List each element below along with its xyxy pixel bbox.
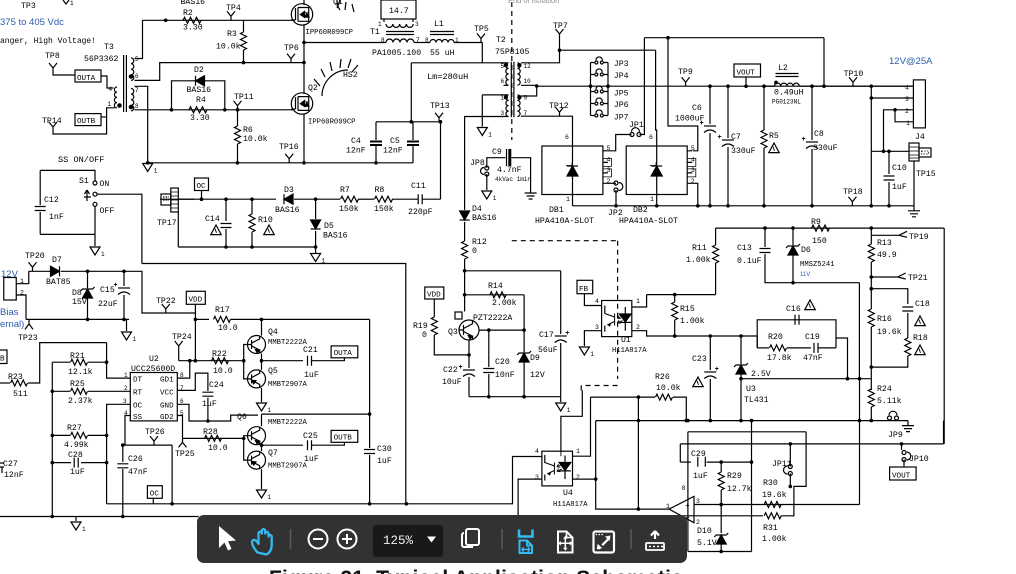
capacitor C23 [709, 336, 711, 370]
svg-text:Q3: Q3 [448, 328, 458, 337]
wire VDD input rail y271.3 [29, 270, 50, 272]
svg-text:5.1V: 5.1V [697, 539, 717, 548]
svg-text:R7: R7 [340, 186, 350, 195]
svg-text:C16: C16 [786, 305, 801, 314]
svg-text:ernal): ernal) [0, 319, 24, 330]
svg-text:TP19: TP19 [909, 233, 929, 242]
resistor R22 body [212, 358, 229, 364]
transformer T2 core [511, 62, 514, 118]
svg-text:R10: R10 [258, 216, 273, 225]
resistor R26 body [656, 394, 673, 400]
wire Q1 source to T1 pin8 [304, 42, 386, 44]
jumper JP8 circles [485, 166, 489, 170]
toolbar separator 2 [501, 529, 503, 549]
toolbar icon fit-width (blue) [519, 530, 533, 537]
svg-text:TP15: TP15 [916, 170, 936, 179]
svg-text:PA1005.100: PA1005.100 [372, 49, 421, 58]
svg-text:Q4: Q4 [268, 328, 278, 337]
wire R17 rail to C30 riser [369, 319, 371, 448]
transformer T3 primary winding 4-1 [114, 87, 117, 108]
wire TP5 riser down to T2 pin5 [481, 43, 483, 63]
svg-text:U4: U4 [563, 489, 573, 498]
wire DB2 pin6 riser [656, 50, 657, 146]
svg-text:1: 1 [378, 21, 382, 28]
wire JP8 bottom to ground [486, 174, 488, 190]
wire R12 node down to R14/Q3 [464, 271, 466, 295]
wire SS switch net vertical x405.8 [142, 264, 406, 504]
svg-text:SS ON/OFF: SS ON/OFF [58, 155, 104, 165]
wire Q3 base [479, 329, 524, 331]
svg-text:D9: D9 [530, 354, 540, 363]
resistor R29 body [718, 472, 724, 490]
capacitor C14 plates [221, 224, 232, 228]
svg-text:GD2: GD2 [160, 414, 174, 422]
wire Q2 source to ground bus [303, 114, 305, 163]
svg-text:JP6: JP6 [614, 101, 629, 110]
svg-text:47nF: 47nF [128, 468, 148, 477]
label OUTA (boxed) right [331, 346, 358, 358]
wire Q1 drain to top [303, 0, 305, 5]
zener 2.5V reference [740, 336, 742, 364]
svg-text:1: 1 [636, 298, 640, 305]
wire L2 leads [764, 85, 775, 87]
inductor L2 winding [775, 83, 800, 86]
ground net1 bias return [126, 319, 128, 331]
svg-text:B: B [0, 356, 5, 364]
svg-text:TP23: TP23 [18, 334, 38, 343]
wire fb box bottom y443.9 [680, 443, 943, 445]
svg-text:R14: R14 [488, 282, 503, 291]
wire Q6 emitter / Q7 emitter node [261, 445, 263, 451]
boxed label B at left edge [0, 350, 7, 364]
resistor R4 body [189, 107, 207, 113]
svg-text:2: 2 [636, 324, 640, 331]
toolbar separator 3 [630, 529, 632, 549]
svg-text:C25: C25 [303, 432, 318, 441]
svg-text:R28: R28 [203, 428, 218, 437]
wire R31 right riser to JP11 [781, 432, 806, 516]
transformer T3 secondary winding 7-8 [131, 89, 134, 111]
wire JP10 to VOUT label [903, 460, 905, 468]
svg-text:1: 1 [566, 196, 570, 203]
svg-text:TP12: TP12 [549, 102, 569, 111]
wire TP8 to OUTA [53, 72, 75, 75]
svg-text:3: 3 [595, 324, 599, 331]
svg-text:R26: R26 [655, 373, 670, 382]
svg-text:4: 4 [607, 157, 611, 164]
heatsink HS1 fins (partial) [337, 0, 354, 12]
jumper block JP3-JP7 box [591, 63, 609, 116]
svg-text:VOUT: VOUT [892, 473, 911, 481]
wire C11 to TP13 riser [423, 198, 441, 200]
ground net1 at T3 pin7 [143, 164, 153, 172]
ground net1 main rail [75, 517, 77, 522]
ground net1 below Q7 [257, 490, 267, 498]
rectifier DB1 internal diode [572, 146, 574, 165]
svg-text:8: 8 [135, 103, 139, 110]
IC U2 box [130, 373, 177, 421]
resistor R31 body [764, 513, 781, 519]
svg-text:1uF: 1uF [304, 371, 319, 380]
label OUTB (boxed) right [331, 430, 358, 442]
svg-text:10.0: 10.0 [213, 367, 233, 376]
svg-text:10.0: 10.0 [218, 324, 238, 333]
svg-text:4: 4 [691, 157, 695, 164]
resistor R23 body [11, 380, 28, 386]
svg-text:IPP60R099CP: IPP60R099CP [306, 29, 353, 37]
wire OC row y199.2 [160, 198, 276, 200]
svg-text:TP3: TP3 [21, 2, 36, 11]
wire T2 pin3 lead to D4 column [465, 117, 508, 200]
svg-text:+: + [565, 330, 569, 338]
primary ground bus y162.8 [148, 162, 413, 164]
resistor R12 [462, 241, 468, 259]
svg-text:S1: S1 [79, 177, 89, 186]
svg-text:1: 1 [82, 526, 86, 533]
svg-text:R18: R18 [913, 334, 928, 343]
svg-text:MMBT2907A: MMBT2907A [268, 463, 308, 471]
warning mark C16 [805, 300, 815, 310]
resistor R5 body [761, 130, 767, 148]
svg-text:C17: C17 [539, 331, 554, 340]
svg-text:10nF: 10nF [495, 371, 515, 380]
wire U4 collector top routing [561, 390, 582, 451]
svg-text:6: 6 [501, 78, 505, 85]
wire T3 pin8 to R4 rail [135, 109, 294, 111]
svg-text:BAT85: BAT85 [46, 278, 71, 287]
svg-text:HPA410A-SLOT: HPA410A-SLOT [535, 217, 594, 226]
wire T2 pin9 join [521, 85, 537, 96]
wire SS node rail [123, 444, 172, 446]
svg-text:L2: L2 [778, 64, 788, 73]
ground net1 T2 primary return [477, 128, 487, 136]
svg-text:3: 3 [535, 474, 539, 481]
wire sense rail y228.1 [716, 227, 945, 229]
transformer T3 core [124, 55, 127, 112]
wire TP7 to T2 pin12 [521, 50, 560, 63]
wire bias pin2 [16, 295, 26, 319]
svg-text:TP24: TP24 [172, 333, 192, 342]
wire GND pin routing [177, 404, 258, 421]
svg-text:12nF: 12nF [383, 147, 403, 156]
capacitor C23 plates [704, 371, 716, 373]
label OUTA (boxed) [75, 70, 101, 82]
resistor R21 body [71, 359, 88, 365]
Q3 ground rail [469, 396, 561, 398]
resistor R30 body [764, 502, 781, 508]
wire opamp -input y515.8 [518, 515, 763, 517]
resistor R20 and capacitor C19 bottom branch [757, 347, 769, 349]
warning mark R5 [769, 143, 779, 153]
compensation loop R20 C19 C16 [757, 320, 836, 348]
svg-text:4.99k: 4.99k [64, 440, 89, 450]
svg-text:MMSZ5241: MMSZ5241 [800, 261, 835, 269]
resistor R24 body [868, 389, 874, 407]
svg-text:BAS16: BAS16 [187, 86, 212, 95]
svg-text:R15: R15 [680, 305, 695, 314]
wire DB1 pin5 to JP1 [608, 135, 632, 151]
warning mark C14 [211, 225, 221, 235]
svg-text:56P3362: 56P3362 [84, 55, 118, 64]
node V1 (top-left partial ground) [63, 0, 69, 4]
label FB (boxed) [577, 280, 593, 293]
zener D6 body [788, 246, 798, 255]
wire T3 pin6 riser to TP6 rail [135, 63, 305, 81]
jumper JP1 circles [630, 133, 634, 137]
svg-text:1uF: 1uF [304, 455, 319, 464]
svg-text:6: 6 [135, 73, 139, 80]
transformer T3 secondary winding 5-6 [131, 58, 134, 80]
figure caption [0, 567, 952, 574]
svg-text:C19: C19 [805, 333, 820, 342]
capacitor C10 plates [884, 176, 895, 180]
wire C11 riser (TP13 node down to C11) [440, 122, 442, 199]
capacitor C22 plates [463, 369, 475, 371]
svg-text:19.6k: 19.6k [877, 327, 902, 337]
svg-text:U2: U2 [149, 355, 159, 364]
svg-text:BAS16: BAS16 [472, 214, 497, 223]
svg-text:C22: C22 [443, 366, 458, 375]
svg-text:J4: J4 [915, 133, 925, 142]
svg-text:1uF: 1uF [892, 183, 907, 192]
svg-text:R31: R31 [763, 524, 778, 533]
warning mark C18 [915, 316, 925, 326]
svg-text:C11: C11 [411, 182, 426, 191]
svg-text:DB2: DB2 [633, 206, 648, 215]
svg-text:1: 1 [154, 168, 158, 175]
svg-text:10.0k: 10.0k [216, 42, 241, 52]
jumper JP10 circles [902, 451, 906, 455]
zener D9 body [519, 353, 529, 362]
svg-text:C29: C29 [691, 450, 706, 459]
wire T2 pin6 stub [504, 84, 509, 86]
test point TP21 tick [898, 273, 906, 279]
wire ref rail to R30 riser [859, 379, 861, 505]
svg-text:U3: U3 [746, 385, 756, 394]
jumper JP11 circles [788, 465, 792, 469]
wire Q4 collector [261, 319, 263, 335]
svg-text:Lm=280uH: Lm=280uH [427, 72, 468, 82]
svg-text:14.7: 14.7 [389, 7, 409, 16]
wire J4 pin1 bracket [895, 110, 913, 122]
svg-text:19.6k: 19.6k [762, 490, 787, 500]
svg-text:ON: ON [100, 180, 110, 189]
diode D5 [315, 199, 317, 219]
wire y431.8 connector [688, 431, 806, 433]
svg-text:R29: R29 [727, 472, 742, 481]
label VDD (boxed) at Q3 [425, 287, 444, 299]
svg-text:1uF: 1uF [202, 400, 217, 409]
diode D2 body [196, 76, 205, 86]
transformer T2 secondary winding 9-7 [517, 95, 520, 117]
wire bias pin1 [16, 271, 28, 283]
capacitor C25 plates [308, 440, 312, 450]
svg-text:5: 5 [135, 56, 139, 63]
svg-text:R4: R4 [196, 96, 206, 105]
svg-text:12.7k: 12.7k [727, 484, 752, 494]
svg-text:0: 0 [472, 247, 477, 256]
wire to ground below switch [94, 234, 96, 246]
wire T3 pin5 riser to R2 rail [135, 20, 143, 58]
wire R26 node down to opamp output [637, 397, 639, 509]
jumper JP3 [595, 61, 598, 64]
wire Q3 emitter down / C22 [468, 340, 470, 355]
resistor R16 body [868, 309, 874, 327]
wire right column R9 to feedback box [943, 228, 945, 444]
jumper JP5 [591, 91, 609, 93]
wire comp loop right down to ref wire [836, 338, 848, 379]
top rail down to L2 output [823, 38, 825, 86]
wire gate rail y20.3 [143, 19, 294, 21]
zener D8 [87, 271, 89, 288]
svg-text:5: 5 [501, 63, 505, 70]
svg-text:GND: GND [160, 403, 174, 411]
resistor R25 [52, 390, 70, 392]
resistor R16 [870, 289, 872, 309]
wire JP1 to top rail [640, 38, 645, 135]
svg-text:Q2: Q2 [308, 84, 318, 93]
toolbar icon hand (pan) [252, 529, 272, 554]
svg-text:T3: T3 [104, 43, 114, 52]
svg-text:1: 1 [590, 351, 594, 358]
svg-text:C8: C8 [814, 130, 824, 139]
svg-text:1: 1 [268, 494, 272, 501]
svg-text:OC: OC [133, 403, 143, 411]
toolbar separator [290, 529, 292, 549]
resistor R10 [251, 199, 253, 214]
wire R8 to C11 [392, 198, 418, 200]
svg-text:1: 1 [268, 407, 272, 414]
svg-text:1: 1 [576, 448, 580, 455]
svg-text:12V: 12V [530, 371, 545, 380]
resistor R17 [195, 318, 209, 320]
svg-text:OC: OC [197, 183, 207, 191]
svg-text:2: 2 [576, 474, 580, 481]
svg-text:DB1: DB1 [549, 206, 564, 215]
svg-text:1.00k: 1.00k [686, 255, 711, 265]
resistor R11 body [713, 245, 719, 263]
svg-text:1.00k: 1.00k [762, 534, 787, 544]
svg-text:6: 6 [649, 134, 653, 141]
svg-text:JP7: JP7 [614, 114, 629, 123]
wire OUTB output row [262, 444, 304, 446]
rectifier DB1 box [542, 146, 603, 195]
wire J4 pin3 [871, 86, 913, 98]
svg-text:C28: C28 [68, 451, 83, 460]
svg-text:D10: D10 [697, 527, 712, 536]
svg-text:C13: C13 [737, 244, 752, 253]
resistor R21 [52, 361, 70, 363]
resistor R6 body [235, 126, 241, 144]
svg-text:330uF: 330uF [731, 147, 756, 156]
svg-text:C12: C12 [44, 196, 59, 205]
svg-text:R24: R24 [877, 385, 892, 394]
svg-text:JP5: JP5 [614, 90, 629, 99]
svg-text:OUTB: OUTB [77, 118, 96, 126]
svg-text:C18: C18 [915, 300, 930, 309]
svg-text:C5: C5 [390, 137, 400, 146]
svg-text:C4: C4 [351, 137, 361, 146]
capacitor C12 [39, 170, 41, 205]
wire R7 to R8 [358, 198, 374, 200]
wire T2 pin1 to gnd riser [482, 94, 508, 96]
svg-text:JP1: JP1 [629, 121, 644, 130]
svg-text:C27: C27 [3, 460, 18, 469]
resistor R27 [52, 434, 70, 436]
svg-text:D8: D8 [72, 289, 82, 298]
resistor R15 [674, 295, 676, 302]
svg-text:1: 1 [650, 196, 654, 203]
transformer T1 primary winding [386, 39, 414, 43]
wire T1 pin7 to L1 [414, 42, 430, 44]
wire JP10 top [901, 444, 903, 450]
svg-text:2.37k: 2.37k [68, 396, 93, 406]
resistor R28 body [205, 435, 222, 441]
svg-text:TP6: TP6 [284, 44, 299, 53]
wire switch OFF down to C12 bottom rail [94, 206, 96, 234]
svg-text:1: 1 [906, 120, 910, 127]
svg-text:4: 4 [109, 86, 113, 93]
toolbar icon zoom out [309, 530, 328, 549]
isolation dashed bottom [581, 385, 617, 387]
test point TP25 [179, 438, 187, 447]
capacitor C5 [412, 122, 414, 140]
wire R11 column [715, 228, 717, 245]
wire comp loop left to fb rail [756, 336, 758, 348]
svg-text:TP17: TP17 [157, 219, 177, 228]
svg-text:55 uH: 55 uH [430, 49, 455, 58]
svg-text:10.0k: 10.0k [656, 383, 681, 393]
rectifier DB1 pin stubs [603, 151, 608, 184]
svg-text:375 to 405 Vdc: 375 to 405 Vdc [0, 17, 64, 28]
svg-text:C9: C9 [492, 148, 502, 157]
svg-text:4: 4 [905, 85, 909, 92]
top DC rail y37.7 [644, 37, 824, 39]
svg-text:C14: C14 [205, 215, 220, 224]
svg-text:8: 8 [682, 485, 686, 492]
zener D8 body [83, 289, 93, 298]
svg-text:Bias: Bias [0, 307, 19, 318]
wire VDD stem [194, 304, 196, 360]
capacitor C24 plates [202, 392, 213, 396]
svg-text:11V: 11V [800, 272, 810, 278]
resistor R27 body [71, 432, 88, 438]
resistor R15 body [672, 302, 678, 320]
svg-text:12.1k: 12.1k [68, 367, 93, 377]
zener D9 [523, 330, 525, 352]
svg-text:150k: 150k [374, 204, 394, 214]
svg-text:TP11: TP11 [234, 93, 254, 102]
wire R14 right down [523, 295, 525, 330]
wire D3 to R7 [294, 198, 340, 200]
svg-text:BAS16: BAS16 [275, 206, 300, 215]
resistor R19 body [431, 317, 437, 335]
capacitor C4 [375, 122, 377, 140]
warning mark C23 [693, 377, 703, 387]
wire D4 column down [464, 199, 466, 210]
svg-text:T1: T1 [370, 28, 380, 37]
wire opamp supply vertical x687.9 [687, 432, 689, 552]
isolation dashed line top [511, 2, 513, 140]
svg-text:17.8k: 17.8k [767, 353, 792, 363]
svg-text:HS2: HS2 [343, 71, 358, 80]
svg-text:D6: D6 [801, 246, 811, 255]
wire main switch node vertical [303, 43, 305, 63]
resistor R18 body [905, 338, 911, 356]
optocoupler U1 box [602, 301, 632, 337]
resistor R26 [591, 396, 656, 398]
svg-text:0: 0 [422, 331, 427, 340]
